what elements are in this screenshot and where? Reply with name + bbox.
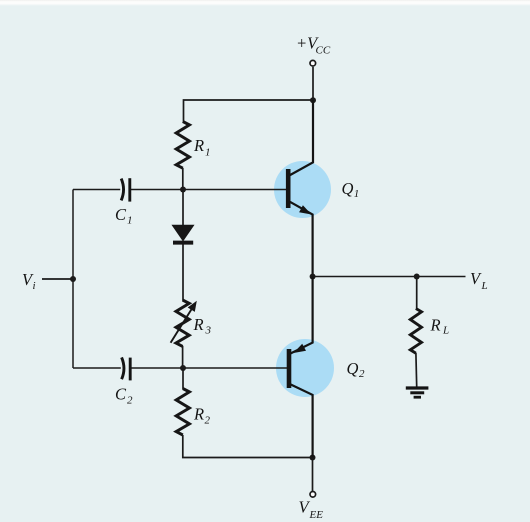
wire: node to R2 (182, 368, 184, 389)
svg-text:V: V (470, 269, 482, 288)
Q2 collector (291, 384, 313, 457)
resistor R2 (176, 389, 189, 436)
svg-text:R: R (430, 315, 441, 334)
wire: diode to R3 (182, 245, 184, 301)
svg-text:R: R (193, 136, 204, 155)
capacitor C1 (121, 179, 123, 201)
resistor R3 (variable) (176, 300, 189, 346)
wire: top horizontal from R1 top to VCC rail (184, 100, 314, 122)
wire: C2 to Q2 base (131, 367, 287, 369)
wire: left rail to C1 (73, 189, 120, 191)
svg-text:L: L (442, 325, 449, 337)
wire: RL to ground (415, 353, 418, 387)
svg-text:1: 1 (205, 147, 211, 159)
svg-text:R: R (193, 315, 204, 334)
svg-text:Q: Q (347, 359, 359, 378)
Q1 collector (290, 100, 314, 175)
svg-text:2: 2 (205, 415, 211, 427)
node at RL top (414, 274, 420, 280)
transistor Q2 highlight circle (276, 339, 334, 397)
svg-text:1: 1 (127, 215, 133, 227)
svg-text:2: 2 (359, 368, 365, 380)
ground (406, 388, 429, 397)
wire: left input rail (72, 190, 74, 369)
wire: C1 to Q1 base (130, 189, 286, 191)
diode D1 (172, 225, 193, 240)
svg-text:Q: Q (342, 179, 354, 198)
resistor R1 (176, 122, 189, 169)
svg-text:i: i (33, 280, 36, 292)
transistor Q1 highlight circle (274, 161, 331, 218)
svg-text:L: L (481, 280, 488, 292)
transistor Q2 (289, 277, 313, 458)
transistor Q1 (288, 100, 313, 277)
wire: left rail to C2 (73, 367, 121, 369)
wire: output to VL (313, 276, 466, 278)
node at R3 bottom / R2 top (180, 365, 186, 371)
Q2 emitter with arrow (points toward base) (290, 277, 312, 354)
node Vi (70, 276, 76, 282)
svg-text:1: 1 (354, 188, 360, 200)
wire Vi stub (42, 278, 73, 280)
output node (310, 274, 316, 280)
wire: VCC terminal to top node (312, 67, 314, 101)
svg-text:C: C (115, 205, 127, 224)
node at VEE rail (310, 455, 316, 461)
node at VCC rail top (310, 97, 316, 103)
R3 arrow (171, 309, 192, 343)
terminal +VCC open circle (310, 60, 316, 66)
Q1 emitter with arrow (290, 202, 313, 277)
svg-text:EE: EE (309, 509, 324, 521)
svg-text:CC: CC (316, 45, 331, 57)
svg-text:2: 2 (127, 395, 133, 407)
wire: node to diode (182, 190, 184, 227)
resistor RL (410, 309, 421, 354)
svg-text:C: C (115, 385, 127, 404)
wire R1 bottom to node (182, 168, 184, 190)
capacitor C2 (122, 357, 124, 379)
wire R3 to node (182, 346, 184, 368)
svg-text:R: R (193, 405, 204, 424)
Q2 base bar (287, 349, 292, 388)
node at R1 bottom / diode top (180, 187, 186, 193)
svg-text:3: 3 (205, 325, 212, 337)
wire: R2 bottom to VEE rail (183, 435, 313, 458)
wire: node to RL (416, 277, 418, 310)
terminal VEE open circle (310, 492, 316, 498)
wire: node to VEE terminal (312, 458, 314, 492)
Q1 base bar (286, 169, 291, 208)
